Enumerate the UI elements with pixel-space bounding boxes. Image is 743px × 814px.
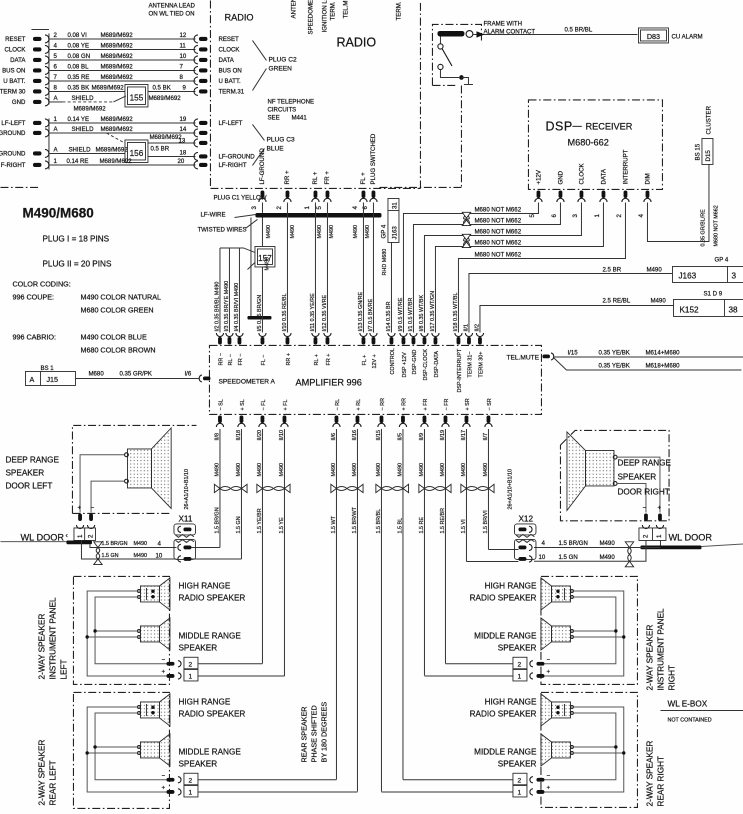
wire 0.5 BK from box155 to radio pin 9 (148, 90, 196, 92)
DSP wire to amp pin (413, 202, 560, 332)
svg-text:7: 7 (53, 74, 57, 81)
svg-text:12: 12 (179, 32, 186, 39)
svg-text:+ RL: + RL (356, 399, 362, 411)
svg-text:1: 1 (77, 534, 84, 538)
svg-text:0.14 YE: 0.14 YE (67, 116, 89, 123)
2-way speaker box right (541, 576, 638, 684)
svg-text:M689/M692: M689/M692 (95, 146, 128, 153)
svg-text:2: 2 (517, 777, 521, 784)
wire 2.5 BR to J163 (469, 273, 673, 332)
svg-text:M680: M680 (88, 370, 104, 377)
deep range speaker left dash-dot box (72, 425, 196, 513)
svg-text:SPEAKER: SPEAKER (498, 759, 537, 768)
svg-text:5: 5 (316, 205, 323, 209)
svg-text:RR +: RR + (286, 353, 292, 365)
svg-text:M689/M692: M689/M692 (149, 134, 182, 141)
amplifier bottom pin (401, 415, 405, 423)
svg-text:M490 COLOR NATURAL: M490 COLOR NATURAL (80, 292, 161, 301)
svg-text:M441: M441 (291, 114, 307, 121)
speaker wire from amp x=219.5 (219, 429, 221, 548)
svg-text:GP 4: GP 4 (714, 256, 728, 263)
svg-text:M689/M692: M689/M692 (100, 116, 133, 123)
middle range speaker (140, 626, 159, 642)
wire I/7 radio pin6 to amp (372, 202, 374, 332)
svg-text:12V +: 12V + (372, 354, 378, 368)
svg-text:MIDDLE RANGE: MIDDLE RANGE (178, 747, 241, 756)
svg-text:TERM.: TERM. (395, 1, 402, 20)
svg-text:M490: M490 (317, 225, 323, 239)
svg-text:10: 10 (155, 552, 162, 559)
svg-text:FL +: FL + (362, 355, 368, 366)
svg-text:DOOR LEFT: DOOR LEFT (5, 481, 52, 490)
svg-text:D15: D15 (705, 150, 712, 162)
svg-text:CIRCUITS: CIRCUITS (267, 106, 296, 113)
svg-text:0.08 GN: 0.08 GN (67, 53, 90, 60)
svg-text:+ SL: + SL (240, 399, 246, 410)
svg-text:M680 COLOR BROWN: M680 COLOR BROWN (80, 345, 155, 354)
svg-text:RL +: RL + (314, 354, 320, 365)
twisted pair mark WL door right (625, 542, 633, 548)
svg-text:D83: D83 (647, 32, 660, 41)
svg-text:SPEAKER: SPEAKER (178, 759, 217, 768)
svg-text:M689/M692: M689/M692 (100, 32, 133, 39)
amplifier top pin x=327.0 (324, 333, 331, 337)
high range radio speaker (140, 586, 159, 602)
svg-text:1.5 BR/GN: 1.5 BR/GN (558, 540, 587, 547)
svg-text:−: − (546, 772, 550, 779)
svg-text:RHD M680: RHD M680 (382, 249, 388, 276)
svg-text:26+A1/10+B1/10: 26+A1/10+B1/10 (184, 469, 190, 509)
svg-text:38: 38 (728, 305, 738, 314)
svg-text:+12V: +12V (536, 169, 543, 184)
svg-text:3: 3 (251, 205, 258, 209)
speaker wire from amp x=241.0 (240, 429, 242, 559)
svg-text:2: 2 (188, 661, 192, 668)
amp wires into X12 (488, 548, 518, 550)
twisted pair mark (381, 486, 403, 490)
tel mute wire M614 (554, 356, 743, 358)
radio plug C1 pin 3 (261, 190, 265, 198)
svg-text:J15: J15 (46, 375, 58, 384)
speaker internal wires (87, 591, 166, 676)
wire I/4 (238, 248, 240, 332)
svg-text:M490: M490 (365, 225, 371, 239)
wire 0.08 BL M689/M692 (49, 69, 196, 71)
svg-text:− FL: − FL (261, 400, 267, 411)
svg-text:FL −: FL − (261, 355, 267, 366)
svg-text:I/4 0.35 BR/VI M490: I/4 0.35 BR/VI M490 (234, 283, 240, 332)
svg-text:+ FR: + FR (423, 399, 429, 411)
alarm switch enclosure dash-dot (432, 24, 481, 85)
svg-text:M689/M692: M689/M692 (100, 74, 133, 81)
svg-text:6: 6 (53, 63, 57, 70)
svg-text:MIDDLE RANGE: MIDDLE RANGE (178, 631, 241, 640)
box 156 (125, 140, 148, 163)
svg-text:M490: M490 (599, 540, 615, 547)
svg-text:SHIELD: SHIELD (71, 95, 94, 102)
svg-text:156: 156 (130, 149, 144, 158)
svg-text:2-WAY SPEAKER: 2-WAY SPEAKER (645, 625, 654, 691)
door pins left (78, 513, 82, 521)
speaker wire from amp x=424.0 (423, 429, 425, 676)
svg-text:2: 2 (642, 534, 649, 538)
speaker wire from amp x=262.0 (261, 429, 263, 664)
wire 0.14 RE F-RIGHT row to pin 20 (49, 164, 196, 166)
svg-text:2: 2 (517, 661, 521, 668)
svg-text:TWISTED WIRES: TWISTED WIRES (197, 226, 246, 233)
svg-text:8: 8 (53, 84, 57, 91)
wires X12 to WL connector right (534, 540, 661, 547)
wire 0.08 GN M689/M692 (49, 59, 196, 61)
svg-text:2-WAY SPEAKER: 2-WAY SPEAKER (37, 740, 46, 806)
wire I/11 radio pin1 to amp (314, 202, 316, 332)
svg-text:1: 1 (304, 205, 311, 209)
svg-text:DEEP RANGE: DEEP RANGE (617, 458, 671, 467)
amplifier top pin x=287.0 (284, 333, 291, 337)
amplifier top pin x=391.0 (388, 333, 395, 337)
amplifier bottom pin (218, 415, 222, 423)
svg-text:SHIELD: SHIELD (71, 126, 94, 133)
svg-text:1: 1 (517, 789, 521, 796)
car pin row 3 (33, 58, 42, 62)
svg-text:RADIO: RADIO (336, 35, 376, 49)
wire 0.35 BK row TERM30 into box 155 (49, 90, 125, 92)
wires rear left to amp (198, 780, 357, 792)
svg-text:I/8 0.35 WT/BK: I/8 0.35 WT/BK (419, 295, 425, 332)
svg-text:0.14 RE: 0.14 RE (66, 158, 88, 165)
speaker wires to door pins right (617, 457, 660, 512)
svg-text:PLUG C1 YELLOW: PLUG C1 YELLOW (213, 194, 266, 201)
wire I/5 from bar to amp (261, 217, 263, 332)
svg-text:RESET: RESET (218, 36, 239, 43)
high range radio speaker (140, 702, 159, 718)
svg-text:BUS ON: BUS ON (2, 68, 25, 75)
svg-text:I/13 0.35 GN/RE: I/13 0.35 GN/RE (358, 292, 364, 332)
speaker wire from amp x=381.0 (380, 429, 382, 792)
switch terminal bar (437, 31, 464, 37)
WL door thick bar left (0, 541, 67, 543)
amplifier bottom pin (240, 415, 244, 423)
svg-text:M689/M692: M689/M692 (91, 84, 124, 91)
car harness connector bracket group2 (48, 118, 50, 169)
speaker wire from amp x=488.0 (487, 429, 489, 550)
svg-text:J163: J163 (678, 271, 696, 280)
amplifier top pin x=435.0 (432, 333, 439, 337)
car pin row 6 (33, 89, 42, 93)
2-way speaker box right (541, 692, 638, 807)
svg-text:PLUG C3: PLUG C3 (266, 136, 295, 143)
svg-text:2.5 BR: 2.5 BR (602, 266, 621, 273)
speaker wire from amp x=445.0 (444, 429, 446, 664)
svg-text:M490: M490 (646, 266, 662, 273)
svg-text:—: — (572, 120, 582, 130)
svg-text:REAR SPEAKER: REAR SPEAKER (299, 707, 308, 763)
speaker internal wires (544, 591, 623, 676)
svg-text:M490: M490 (133, 541, 147, 547)
speedometer pin (199, 375, 202, 382)
svg-text:996 COUPE:: 996 COUPE: (12, 292, 54, 301)
svg-text:8: 8 (179, 74, 183, 81)
DSP wire to amp pin (403, 202, 538, 332)
wire from box156 to radio pin 13 (148, 142, 196, 144)
svg-text:1: 1 (656, 534, 663, 538)
svg-text:M680 NOT M662: M680 NOT M662 (474, 217, 521, 224)
svg-text:M490: M490 (133, 553, 147, 559)
radio plug C1 pin 4 (362, 190, 366, 198)
svg-text:FL +: FL + (360, 172, 367, 185)
bracket joining I/2 I/3 I/4 to box157 (220, 248, 255, 269)
amplifier top pin x=363.0 (360, 333, 367, 337)
svg-text:FR +: FR + (326, 354, 332, 366)
svg-text:18: 18 (179, 149, 186, 156)
amplifier top pin x=315.0 (312, 333, 319, 337)
car pin row 1 (33, 37, 42, 41)
amplifier bottom pin (423, 415, 427, 423)
svg-text:− FR: − FR (444, 399, 450, 411)
amplifier 996 dash-dot box (209, 345, 541, 414)
svg-text:M680 NOT M662: M680 NOT M662 (474, 206, 521, 213)
svg-text:DSP-CLOCK: DSP-CLOCK (423, 349, 429, 381)
shield wire GND row (49, 101, 63, 103)
car pin (33, 131, 42, 135)
svg-text:GND: GND (558, 170, 565, 184)
amplifier top pin x=229.0 (226, 333, 233, 337)
svg-text:RADIO SPEAKER: RADIO SPEAKER (470, 709, 537, 718)
svg-text:TERM 31−: TERM 31− (467, 352, 473, 378)
svg-text:2.5 RE/BL: 2.5 RE/BL (602, 297, 630, 304)
svg-text:M618+M680: M618+M680 (645, 362, 680, 369)
amplifier top pin x=403.0 (400, 333, 407, 337)
svg-text:26+A1/10+B1/10: 26+A1/10+B1/10 (507, 469, 513, 509)
svg-text:I/18 0.35 WT/BL: I/18 0.35 WT/BL (453, 293, 459, 332)
svg-text:6: 6 (551, 213, 558, 217)
svg-text:SPEEDOMETER A: SPEEDOMETER A (218, 378, 275, 385)
svg-text:I/1 0.5 WT/BR: I/1 0.5 WT/BR (408, 298, 414, 332)
svg-text:0.35 BK: 0.35 BK (67, 84, 89, 91)
amplifier bottom pin (283, 415, 287, 423)
svg-text:INTERRUPT: INTERRUPT (623, 149, 630, 184)
svg-text:INSTRUMENT PANEL: INSTRUMENT PANEL (48, 597, 57, 679)
svg-text:3: 3 (731, 271, 736, 280)
svg-text:M490/M680: M490/M680 (22, 205, 93, 220)
svg-text:I/10 0.35 RE/BL: I/10 0.35 RE/BL (282, 293, 288, 331)
svg-text:GND: GND (12, 99, 26, 106)
svg-text:DSP-INTERRUPT: DSP-INTERRUPT (457, 348, 463, 392)
svg-text:SPEEDOMETER: SPEEDOMETER (307, 0, 314, 34)
svg-text:3: 3 (572, 213, 579, 217)
svg-text:− SL: − SL (218, 399, 224, 410)
svg-text:1: 1 (53, 116, 57, 123)
svg-text:0.5 BK: 0.5 BK (152, 84, 170, 91)
svg-text:+: + (546, 668, 550, 675)
connector D15 cluster (702, 138, 713, 164)
svg-text:0.35 YE/BK: 0.35 YE/BK (598, 362, 629, 369)
svg-text:TERM 30+: TERM 30+ (478, 352, 484, 378)
svg-text:M680 NOT M662: M680 NOT M662 (474, 239, 521, 246)
car pin (33, 163, 42, 167)
svg-text:4: 4 (53, 42, 57, 49)
svg-text:FR −: FR − (238, 354, 244, 366)
wire I/2 (219, 248, 221, 332)
car pin row 2 (33, 47, 42, 51)
svg-text:M490 COLOR BLUE: M490 COLOR BLUE (80, 332, 147, 341)
svg-text:155: 155 (130, 93, 144, 102)
svg-text:K152: K152 (679, 305, 699, 314)
svg-text:+: + (546, 784, 550, 791)
speaker wire from amp x=402.5 (402, 429, 404, 780)
wire I/12 radio pin5 to amp (326, 202, 328, 332)
svg-text:4: 4 (157, 540, 161, 547)
svg-text:2: 2 (53, 32, 57, 39)
svg-text:+: + (161, 668, 165, 675)
svg-text:IGNITION LOCK: IGNITION LOCK (321, 0, 328, 32)
speaker woofer right (585, 450, 614, 486)
DSP receiver dash-dot box (528, 100, 662, 190)
speaker internal wires (544, 707, 623, 792)
amplifier top pin x=239.0 (236, 333, 243, 337)
svg-text:M490: M490 (599, 554, 615, 561)
svg-text:− RL: − RL (335, 399, 341, 411)
wire 0.5 BR from box156 to pin 18 (148, 155, 196, 157)
twisted pair mark (220, 486, 242, 490)
svg-text:I/12 0.35 VI/RE: I/12 0.35 VI/RE (322, 294, 328, 331)
speaker wire from amp x=357.0 (356, 429, 358, 792)
wires instrument right to amp (424, 664, 513, 676)
svg-text:DIM: DIM (645, 173, 652, 184)
middle range speaker right (551, 742, 570, 758)
svg-text:M689/M692: M689/M692 (100, 63, 133, 70)
svg-text:M490: M490 (650, 297, 666, 304)
svg-text:GROUND: GROUND (0, 151, 26, 158)
svg-text:14: 14 (179, 126, 186, 133)
high range radio speaker right (551, 586, 570, 602)
svg-text:DSP: DSP (545, 119, 572, 133)
radio plug C1 pin 5 (326, 190, 330, 198)
svg-text:GROUND: GROUND (0, 130, 26, 137)
svg-text:LF-GROUND: LF-GROUND (259, 148, 266, 185)
svg-text:2: 2 (188, 777, 192, 784)
svg-text:BUS ON: BUS ON (218, 68, 241, 75)
svg-text:TERM.: TERM. (329, 1, 336, 20)
svg-text:PHASE SHIFTED: PHASE SHIFTED (309, 705, 318, 762)
amplifier top pin x=458.0 (455, 333, 462, 337)
wire I/6 0.35 GR/PK M680 (75, 377, 199, 379)
svg-text:PLUG C2: PLUG C2 (268, 56, 297, 63)
svg-text:REAR LEFT: REAR LEFT (48, 760, 57, 805)
svg-text:0.35 GR/BL/RE: 0.35 GR/BL/RE (700, 209, 706, 247)
svg-text:SPEAKER: SPEAKER (617, 472, 656, 481)
amplifier top pin x=413.0 (410, 333, 417, 337)
speaker woofer left (127, 449, 151, 488)
svg-text:20: 20 (177, 158, 184, 165)
svg-text:M490: M490 (290, 225, 296, 239)
svg-text:CLUSTER: CLUSTER (705, 105, 712, 134)
svg-text:−: − (546, 656, 550, 663)
high range radio speaker right (551, 702, 570, 718)
wire I/14 0.35 BR (390, 242, 392, 332)
middle range speaker (140, 742, 159, 758)
svg-text:11: 11 (179, 42, 186, 49)
amplifier top pin x=219.5 (216, 333, 223, 337)
amplifier bottom pin (335, 415, 339, 423)
speaker wire from amp x=336.0 (335, 429, 337, 780)
DIM wire to cluster (647, 164, 709, 241)
svg-text:GREEN: GREEN (268, 65, 292, 72)
speaker wire from amp x=466.0 (465, 429, 467, 562)
svg-text:LF-WIRE: LF-WIRE (200, 211, 225, 218)
svg-text:0.08 VI: 0.08 VI (67, 32, 87, 39)
svg-text:U BATT.: U BATT. (3, 78, 26, 85)
svg-text:10: 10 (538, 554, 545, 561)
amplifier bottom pin (487, 415, 491, 423)
amplifier top pin x=468.5 (465, 333, 472, 337)
svg-text:DSP +12V: DSP +12V (402, 352, 408, 378)
svg-text:+ SR: + SR (465, 398, 471, 410)
svg-text:RL −: RL − (228, 354, 234, 365)
svg-text:− RR: − RR (380, 398, 386, 411)
svg-text:DATA: DATA (218, 57, 234, 64)
svg-text:− SR: − SR (487, 398, 493, 410)
svg-text:+: + (77, 504, 81, 511)
svg-text:SEE: SEE (267, 114, 279, 121)
svg-text:TEL.MUTE: TEL.MUTE (506, 354, 539, 361)
svg-text:WL DOOR: WL DOOR (20, 532, 64, 542)
svg-text:M689/M692: M689/M692 (99, 158, 132, 165)
svg-text:9: 9 (182, 84, 186, 91)
door pins right (644, 513, 648, 521)
svg-text:I/6: I/6 (184, 370, 191, 377)
svg-text:5: 5 (53, 53, 57, 60)
svg-text:BY 180 DEGREES: BY 180 DEGREES (319, 702, 328, 763)
svg-text:1.5 GN: 1.5 GN (558, 554, 577, 561)
svg-text:0.5 BR/BL: 0.5 BR/BL (564, 26, 592, 33)
svg-text:RADIO SPEAKER: RADIO SPEAKER (178, 709, 245, 718)
svg-text:LEFT: LEFT (59, 659, 68, 679)
svg-text:M680 NOT M662: M680 NOT M662 (474, 251, 521, 258)
wire 0.08 VI M689/M692 (49, 38, 196, 40)
svg-text:RR +: RR + (284, 170, 291, 184)
svg-text:TERM.31: TERM.31 (218, 89, 244, 96)
svg-text:HIGH RANGE: HIGH RANGE (178, 697, 230, 706)
svg-text:LF-LEFT: LF-LEFT (218, 120, 242, 127)
svg-text:DSP-DATA: DSP-DATA (434, 351, 440, 378)
speaker wires to door pins (80, 455, 124, 513)
svg-text:TEL.M: TEL.M (342, 1, 349, 19)
svg-text:10: 10 (179, 53, 186, 60)
car pin (33, 121, 42, 125)
svg-text:M490: M490 (264, 257, 270, 271)
svg-text:31: 31 (391, 202, 398, 209)
DSP wire to amp pin (435, 202, 603, 332)
svg-text:+: + (161, 784, 165, 791)
svg-text:X11: X11 (178, 514, 192, 523)
svg-text:M680 NOT M662: M680 NOT M662 (474, 228, 521, 235)
svg-text:BS 1: BS 1 (40, 365, 54, 372)
svg-text:DATA: DATA (601, 168, 608, 184)
svg-text:MIDDLE RANGE: MIDDLE RANGE (474, 631, 537, 640)
svg-text:M680 COLOR GREEN: M680 COLOR GREEN (80, 305, 153, 314)
wire pin3 LF-GROUND to bar (261, 202, 263, 213)
svg-text:1.5 GN: 1.5 GN (101, 553, 118, 559)
twisted pair mark WL door left (94, 542, 102, 548)
svg-text:DOOR RIGHT: DOOR RIGHT (617, 487, 669, 496)
svg-text:S1 D 9: S1 D 9 (703, 290, 722, 297)
car pin row 7 (33, 100, 42, 104)
wire 2.5 RE/BL to K152 (480, 305, 674, 332)
shield end thick stub (247, 316, 271, 320)
svg-text:LF-GROUND: LF-GROUND (218, 154, 255, 161)
svg-text:WL E-BOX: WL E-BOX (667, 699, 707, 708)
